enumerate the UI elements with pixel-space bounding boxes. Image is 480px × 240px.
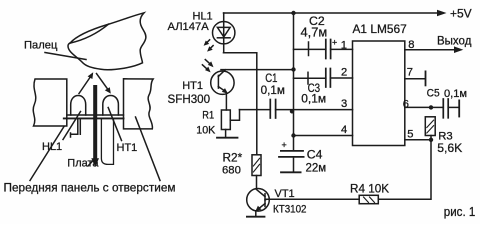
R1 ground bar [217,137,238,139]
light ray arrow down (finger to sensor) [97,74,111,94]
svg-text:+: + [282,140,287,150]
junction dot bus top rail [291,11,295,15]
+5V rail [224,10,447,17]
svg-text:R1: R1 [202,110,214,122]
R1 side tap [230,110,239,121]
resistor R3 [425,117,435,140]
svg-text:Передняя панель с отверстием: Передняя панель с отверстием [4,181,176,195]
light ray arrow up (LED to finger) [79,72,93,93]
svg-text:Палец: Палец [24,39,58,51]
IC A1 LM567 box [353,41,405,146]
svg-text:HT1: HT1 [117,142,138,154]
junction dot C1 bus [290,109,294,113]
wire tap to C1 [240,109,271,111]
wire LED cathode to R2 top [224,53,257,155]
leader HL1 [63,112,81,140]
light arrows into HT1 [202,60,213,73]
LED emission arrows [204,40,214,52]
photodetector dome HT1 [103,96,119,116]
junction dot collector bus [291,67,295,71]
svg-text:+: + [332,38,337,48]
junction dot pin6 [429,105,433,109]
capacitor C5 [431,99,459,118]
svg-text:6: 6 [403,98,409,110]
svg-text:2: 2 [341,67,347,79]
resistor R1 [221,110,230,130]
wire pin5 down to R4 rail [379,140,432,199]
svg-text:C4: C4 [307,148,323,162]
svg-text:4,7м: 4,7м [301,24,328,39]
divider bar [93,85,97,159]
svg-text:0,1м: 0,1м [444,88,467,100]
wire HT1 collector to bus [221,69,294,71]
svg-text:VT1: VT1 [275,188,295,200]
svg-text:7: 7 [407,67,413,79]
dome2 leg loop [101,120,113,165]
svg-text:680: 680 [222,164,241,176]
leader Плата [88,160,94,167]
VT1 ground bar [247,216,265,218]
VT1 symbol [255,189,265,211]
svg-text:HL1: HL1 [42,141,62,153]
LED symbol [217,13,230,53]
svg-text:SFH300: SFH300 [168,93,211,106]
svg-text:КТ3102: КТ3102 [273,203,307,215]
svg-text:C5: C5 [427,87,440,99]
LED HL1 circle [213,22,235,44]
svg-text:10K: 10K [196,125,216,137]
svg-text:22м: 22м [306,163,327,175]
svg-text:1: 1 [341,39,347,51]
front panel right block [124,79,154,129]
caption leader left [30,127,64,181]
finger outline [68,13,146,70]
svg-text:3: 3 [341,98,347,110]
leader HT1 [108,108,121,141]
svg-text:R4 10K: R4 10K [350,182,389,195]
svg-text:0,1м: 0,1м [261,84,285,97]
pin7 ground stub [405,71,426,85]
svg-text:0,1м: 0,1м [301,92,326,106]
svg-text:R2*: R2* [223,151,243,165]
svg-text:+5V: +5V [450,6,472,20]
svg-text:A1 LM567: A1 LM567 [353,22,408,36]
pin4 wire to bus [294,135,353,137]
transistor VT1 circle [247,189,270,212]
capacitor C1 [270,100,275,119]
dome1 legs [71,120,81,138]
phototransistor symbol [218,70,228,110]
fingernail [70,24,109,43]
svg-text:рис. 1: рис. 1 [444,204,476,219]
pin8 output wire [405,46,464,53]
capacitor C2 [294,40,353,59]
capacitor C4 [279,151,304,172]
svg-text:HT1: HT1 [182,80,203,92]
wire R2 to VT1 collector [256,176,258,189]
resistor R4 [359,195,378,203]
svg-text:Выход: Выход [437,36,472,48]
junction dot R3 bottom [429,138,433,142]
leader Палец [45,53,86,60]
junction dot pin4 bus [291,133,295,137]
capacitor C3 [294,69,353,88]
wire C1 to pin3 [276,109,353,111]
caption leader right [136,117,161,181]
supply bus vertical [293,13,295,150]
svg-text:АЛ147А: АЛ147А [168,21,210,33]
LED dome HL1 [71,96,86,116]
VT1 emitter wire [255,211,257,216]
svg-text:4: 4 [341,124,347,136]
board Плата bar [64,115,124,118]
svg-text:5,6K: 5,6K [437,141,462,155]
divider bottom arrow blob [91,158,99,167]
wire R4 to VT1 base [266,198,360,200]
pin5 wire [405,139,431,141]
pin6 wire [405,106,431,108]
resistor R2 [252,155,261,176]
phototransistor HT1 circle [211,71,234,94]
front panel left block [33,79,67,126]
svg-text:5: 5 [407,129,413,141]
R1 bottom lead [225,130,227,138]
